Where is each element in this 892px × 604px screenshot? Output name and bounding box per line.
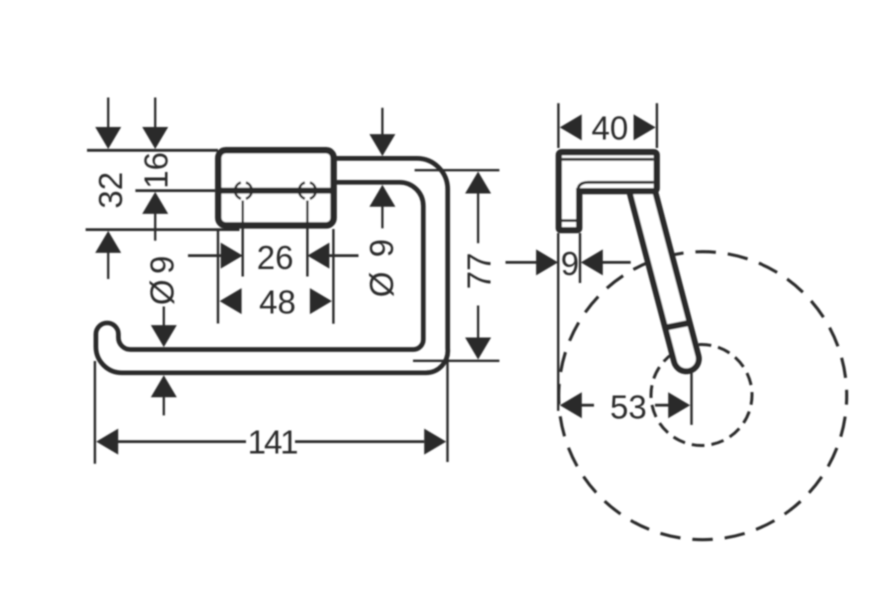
svg-text:77: 77 [460, 253, 497, 290]
svg-text:16: 16 [137, 152, 174, 189]
svg-text:48: 48 [259, 283, 296, 320]
svg-text:32: 32 [92, 172, 129, 209]
svg-text:9: 9 [561, 245, 579, 282]
svg-text:Ø9: Ø9 [143, 250, 180, 305]
svg-text:Ø 9: Ø 9 [363, 236, 400, 297]
svg-text:141: 141 [248, 424, 299, 461]
svg-text:26: 26 [257, 239, 294, 276]
svg-text:53: 53 [610, 389, 647, 426]
svg-text:40: 40 [592, 110, 629, 147]
